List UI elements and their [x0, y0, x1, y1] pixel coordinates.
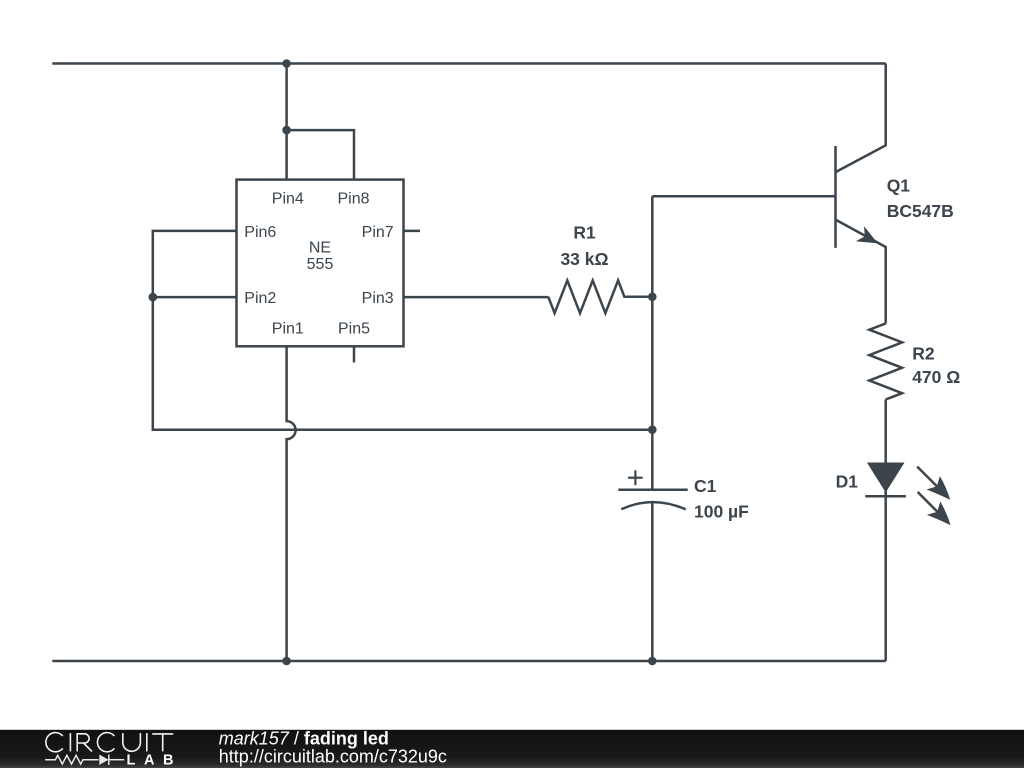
wire from top rail down to Pin4 — [285, 64, 288, 180]
wire top supply rail — [52, 62, 885, 65]
diode D1 cathode bar — [865, 495, 906, 498]
svg-text:Pin5: Pin5 — [338, 321, 370, 338]
junction R1 right / mid column — [648, 293, 657, 302]
wire Pin2 stub to left column — [153, 296, 237, 299]
svg-text:Pin6: Pin6 — [244, 224, 276, 241]
resistor R1 — [548, 280, 652, 313]
svg-text:33 kΩ: 33 kΩ — [560, 249, 608, 269]
wire collector of Q1 up to rail — [836, 64, 886, 173]
svg-text:LAB: LAB — [127, 753, 174, 768]
wire Pin6 to left column — [153, 231, 237, 297]
svg-text:R2: R2 — [912, 343, 935, 363]
capacitor C1 plus sign — [628, 470, 643, 485]
svg-text:Pin3: Pin3 — [362, 290, 394, 307]
wire mid column lower (below C1) — [651, 502, 654, 661]
wire mid column upper (base node) — [651, 196, 654, 490]
capacitor C1 top plate — [618, 489, 687, 492]
wire base of Q1 — [652, 195, 835, 198]
LED light arrow 2 — [918, 492, 951, 525]
wire bottom ground rail — [52, 660, 885, 663]
junction bottom rail pin1 — [282, 657, 291, 666]
junction pin2/pin6 node — [149, 293, 158, 302]
junction pin4/pin8 tie — [282, 126, 291, 135]
LED light arrow 1 — [917, 467, 950, 500]
footer bar — [0, 730, 1024, 768]
diode D1 LED triangle — [867, 463, 905, 493]
wire pin4 tie over to Pin8 — [287, 130, 354, 180]
svg-text:555: 555 — [307, 256, 334, 273]
CircuitLab logo CIRCUIT text — [46, 733, 173, 752]
wire Pin5 stub — [353, 346, 356, 362]
svg-text:Pin7: Pin7 — [362, 224, 394, 241]
CircuitLab logo resistor-diode glyph — [45, 755, 124, 765]
svg-text:C1: C1 — [694, 476, 717, 496]
svg-text:mark157 / fading led: mark157 / fading led — [219, 729, 389, 749]
junction threshold node at C1 column — [648, 425, 657, 434]
wire emitter column down to bottom rail — [884, 400, 887, 662]
capacitor C1 curved plate — [621, 502, 685, 509]
junction top rail / pin4 branch — [282, 59, 291, 68]
svg-text:Pin2: Pin2 — [244, 290, 276, 307]
svg-text:Q1: Q1 — [887, 176, 911, 196]
wire Pin7 stub — [404, 230, 421, 233]
svg-text:R1: R1 — [573, 223, 596, 243]
svg-text:BC547B: BC547B — [887, 201, 954, 221]
svg-text:470 Ω: 470 Ω — [912, 367, 960, 387]
svg-text:http://circuitlab.com/c732u9c: http://circuitlab.com/c732u9c — [219, 747, 447, 767]
svg-text:D1: D1 — [836, 471, 859, 491]
wire left column down and across to C1 node — [153, 297, 653, 430]
junction bottom rail C1 — [648, 657, 657, 666]
resistor R2 — [869, 323, 902, 399]
emitter arrow of Q1 — [856, 226, 878, 243]
svg-text:Pin1: Pin1 — [272, 321, 304, 338]
wire Pin1 down with hop over horizontal wire — [287, 346, 296, 661]
svg-text:Pin8: Pin8 — [337, 191, 369, 208]
transistor Q1 body bar — [834, 146, 837, 248]
wire emitter of Q1 — [836, 220, 886, 324]
svg-text:Pin4: Pin4 — [272, 191, 304, 208]
op-amp U1 NE555 body — [237, 180, 404, 347]
svg-text:100 µF: 100 µF — [694, 502, 749, 522]
svg-text:NE: NE — [309, 239, 331, 256]
wire Pin3 to R1 — [404, 296, 549, 299]
